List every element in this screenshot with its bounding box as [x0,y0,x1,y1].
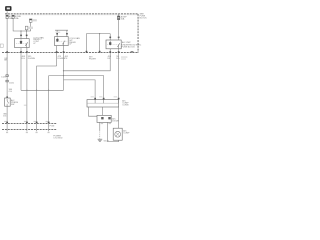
PCM pin pips [6,122,8,124]
svg-text:401PK: 401PK [65,56,69,60]
A/C comp connector box [87,100,119,107]
relay R1 internal dashed [16,42,28,44]
relay1 pin wires down from rail [20,31,22,39]
svg-text:A/CCOMPCONN: A/CCOMPCONN [122,100,129,107]
svg-text:ECMB15A: ECMB15A [15,16,22,20]
fuse above relay1 pin [25,26,28,30]
label left of wire [24,105,27,106]
PCM pin letters [4,121,6,122]
pin labels [91,96,94,97]
ground bus [21,89,64,91]
relay R2 internal dashed [107,43,120,45]
relay R3 switch [62,41,65,46]
svg-text:339PK/WH: 339PK/WH [89,56,96,60]
relay3 pin wires to dashed line [56,46,58,66]
relay R3 coil [56,38,58,42]
svg-text:242BN: 242BN [4,58,8,62]
wire fuse1 down to pressure switch [6,19,8,99]
fuse F3 [117,14,127,21]
svg-text:COOL FANS/PRELAY47: COOL FANS/PRELAY47 [69,37,80,46]
pip on bottom dashed right [131,51,134,53]
relay R3 internal dashed [56,40,67,42]
PCM dashed top border [2,122,57,124]
underhood fuse block dashed bottom border [2,52,138,54]
A/C compressor clutch box [113,128,122,140]
wire F2 down and rail to relay 1 [13,19,31,32]
svg-text:C125: C125 [1,77,7,79]
bus junction dots [26,90,27,91]
interior rail5 right block [86,34,110,53]
svg-text:SEEFUSEBLOCK: SEEFUSEBLOCK [140,14,148,20]
relay1 pin A wire down [20,48,22,91]
diode box [97,115,111,122]
grid ref box left edge [0,44,3,47]
pips relay2 bottom [109,51,111,53]
junction at rail y31 [20,30,21,31]
spine into motor box [118,107,120,128]
internal pin marks [95,100,119,104]
svg-text:ACMP10A: ACMP10A [121,16,128,21]
svg-text:459DB: 459DB [108,56,112,60]
A/C pressure switch box [5,98,11,106]
circuit breaker symbol near left [29,19,36,31]
rail4 to box pin [64,80,96,100]
svg-text:A/CPRESSSW: A/CPRESSSW [11,99,19,106]
scan shadow under top border [5,14,138,16]
wire to ground dotted [99,131,101,139]
svg-text:409DG: 409DG [22,56,26,60]
text below dashed right [121,56,127,57]
underhood fuse block dashed top border [5,13,138,15]
pin pips relay1 top [20,35,22,37]
relay R1 switch [25,42,27,47]
pin labels below diode box [101,123,103,124]
pips on connector box top [94,98,96,100]
label above relay3 [56,32,61,33]
pips relay3 top [56,33,58,35]
wire battery down to fuse F1 [6,11,8,15]
pips rail5 bottoms [86,51,88,53]
battery icon B+ [5,6,11,11]
svg-text:COOL FANRELAY 1CONT47: COOL FANRELAY 1CONT47 [33,36,44,44]
pips relay2 top [109,37,111,39]
wire fuse3 down to relay2 [118,20,120,40]
pip on dashed for F1 wire [6,51,8,53]
svg-text:C100: C100 [9,82,15,84]
svg-text:POWERCTL MOD: POWERCTL MOD [53,135,63,139]
chassis ground G [98,139,103,142]
relay R1 coil [20,39,22,44]
svg-text:335DG/WH: 335DG/WH [28,56,36,60]
svg-text:PCM: PCM [50,125,55,127]
clutch loop wire [108,122,119,141]
wire from F1 down to PCM [6,106,8,121]
PCM dashed bottom border [2,129,57,131]
pin letters below PCM stubs [6,132,8,133]
PCM pin stubs [7,123,49,131]
relay R3 box [55,37,69,46]
pips relay3 bottom on dashed [56,51,58,53]
fuse F1 [6,15,13,20]
wire to ground solid [99,122,101,130]
relay R2 coil [109,41,111,46]
rail3 [49,76,104,100]
relay R1 box [15,39,30,48]
pip on dashed for pinA [20,51,22,53]
underhood fuse block dashed right border [137,14,139,53]
fuse F2 [12,15,21,20]
wire pinC4 jog left [37,66,57,122]
clutch coil circle [115,131,121,137]
svg-text:59DG: 59DG [116,56,120,60]
stubs to diode box [89,107,98,116]
svg-text:A/CCOMP: A/CCOMP [123,130,130,135]
svg-text:A/C CMP: A/C CMP [122,41,131,44]
relay2 pin wires to dashed [109,49,111,58]
svg-text:UNDERHOOD ELECFUSE BLOCK: UNDERHOOD ELECFUSE BLOCK [122,44,142,48]
relay R3 top jumper [55,30,68,36]
svg-text:340OG: 340OG [9,89,13,93]
rail3 left leg down [48,76,50,123]
relay R2 switch [117,43,119,49]
relay1 pin B wire down [26,48,28,123]
svg-text:A/CDIODE: A/CDIODE [112,118,119,123]
relay R2 box [106,40,121,49]
inline connectors on battery wire [6,75,8,77]
rail2 to relay2 coil [64,58,111,71]
